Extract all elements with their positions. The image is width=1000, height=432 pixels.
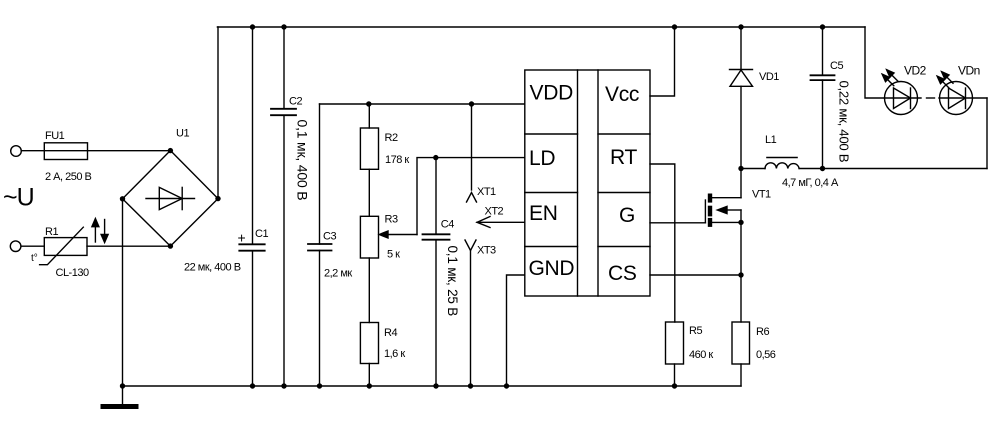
wire G xyxy=(650,222,705,224)
resistor R4 xyxy=(368,258,370,323)
arrow up xyxy=(94,226,96,242)
resistor R5 xyxy=(666,322,684,364)
svg-text:FU1: FU1 xyxy=(45,130,65,142)
svg-text:R5: R5 xyxy=(689,325,702,337)
svg-text:C3: C3 xyxy=(323,230,336,242)
transistor VT1 xyxy=(704,200,706,223)
node input terminal 2 xyxy=(10,241,21,252)
svg-text:LD: LD xyxy=(529,147,555,170)
capacitor C4 xyxy=(435,158,437,386)
svg-text:VT1: VT1 xyxy=(752,189,771,201)
svg-text:0,56: 0,56 xyxy=(756,349,776,361)
resistor R6 xyxy=(732,322,750,364)
fuse FU1 xyxy=(44,150,170,152)
wire VDD bus xyxy=(320,103,525,105)
svg-text:XT2: XT2 xyxy=(485,206,504,218)
LED VD2 xyxy=(885,82,918,115)
wire LED return xyxy=(986,98,988,169)
wire bottom bus xyxy=(123,385,742,387)
svg-text:VDn: VDn xyxy=(958,64,980,78)
capacitor C3 xyxy=(319,104,321,386)
svg-text:C2: C2 xyxy=(289,95,302,107)
wire GND pin xyxy=(507,275,525,386)
svg-text:CL-130: CL-130 xyxy=(56,267,89,279)
wire xyxy=(470,251,472,387)
wire top bus xyxy=(217,26,865,28)
wire CS xyxy=(650,274,741,276)
resistor R1 thermistor xyxy=(44,238,87,256)
svg-text:C1: C1 xyxy=(255,228,268,240)
svg-text:0,22 мк, 400 В: 0,22 мк, 400 В xyxy=(837,81,852,163)
svg-text:0,1 мк, 400 В: 0,1 мк, 400 В xyxy=(295,120,311,201)
svg-text:2 А, 250 В: 2 А, 250 В xyxy=(45,171,92,183)
svg-text:2,2 мк: 2,2 мк xyxy=(324,267,352,279)
wire xyxy=(885,97,922,99)
svg-text:+: + xyxy=(238,230,246,246)
capacitor C1 xyxy=(252,27,254,386)
node input terminal 1 xyxy=(11,146,22,157)
svg-text:R4: R4 xyxy=(384,327,397,339)
svg-text:4,7 мГ, 0,4 А: 4,7 мГ, 0,4 А xyxy=(782,177,839,189)
svg-text:R6: R6 xyxy=(756,326,769,338)
wire dashed xyxy=(927,97,935,99)
svg-text:460 к: 460 к xyxy=(689,349,713,361)
wire xyxy=(939,97,987,99)
arrow down xyxy=(104,220,106,235)
svg-text:Vcc: Vcc xyxy=(605,83,639,106)
rectifier bridge U1 xyxy=(123,151,219,247)
capacitor C2 xyxy=(283,27,285,386)
svg-text:C4: C4 xyxy=(441,218,454,230)
contact XT3 xyxy=(465,240,476,251)
potentiometer R3 xyxy=(360,216,378,258)
svg-text:R1: R1 xyxy=(45,226,58,238)
svg-text:GND: GND xyxy=(529,257,575,280)
svg-text:R2: R2 xyxy=(385,132,398,144)
svg-text:RT: RT xyxy=(610,146,637,169)
wire Vcc xyxy=(650,27,675,96)
wire R3 wiper to LD xyxy=(417,158,525,235)
svg-text:1,6 к: 1,6 к xyxy=(384,348,405,360)
wire xyxy=(799,168,987,170)
capacitor C5 xyxy=(822,27,824,169)
diode VD1 xyxy=(740,27,742,70)
svg-text:5 к: 5 к xyxy=(387,249,400,261)
wire xyxy=(87,245,170,247)
wire xyxy=(22,150,45,152)
svg-text:XT1: XT1 xyxy=(477,186,496,198)
svg-text:22 мк, 400 В: 22 мк, 400 В xyxy=(184,262,241,274)
wire LED feed xyxy=(865,27,885,98)
svg-text:0,1 мк, 25 В: 0,1 мк, 25 В xyxy=(445,246,460,317)
svg-text:VD2: VD2 xyxy=(904,64,927,78)
svg-text:R3: R3 xyxy=(385,213,398,225)
svg-text:G: G xyxy=(619,204,635,227)
svg-text:XT3: XT3 xyxy=(477,245,496,257)
svg-text:178 к: 178 к xyxy=(385,154,409,166)
resistor R2 xyxy=(368,104,370,128)
svg-text:EN: EN xyxy=(529,202,558,225)
svg-text:~U: ~U xyxy=(3,184,34,212)
contact XT1 xyxy=(471,104,473,190)
op-amp U2 controller IC xyxy=(525,70,650,296)
wire RT xyxy=(650,164,675,322)
wire xyxy=(22,245,45,247)
svg-text:VDD: VDD xyxy=(530,82,574,105)
inductor L1 xyxy=(741,168,765,170)
wire bridge plus riser xyxy=(217,27,219,199)
LED VDn xyxy=(940,82,973,115)
svg-text:U1: U1 xyxy=(176,128,189,140)
wire bridge minus to ground xyxy=(122,199,124,386)
wire EN xyxy=(477,221,525,223)
svg-text:L1: L1 xyxy=(765,134,777,146)
ground xyxy=(122,386,124,404)
wire drain xyxy=(740,169,742,198)
svg-text:t°: t° xyxy=(31,253,38,264)
wire xyxy=(368,169,370,216)
svg-text:CS: CS xyxy=(608,262,637,285)
svg-text:C5: C5 xyxy=(830,60,843,72)
svg-text:VD1: VD1 xyxy=(759,71,779,83)
contact XT2 xyxy=(477,217,490,228)
